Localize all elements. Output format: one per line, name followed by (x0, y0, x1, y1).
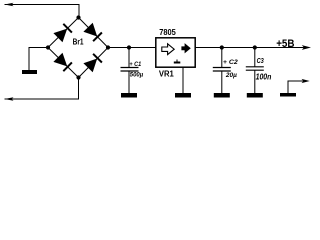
wire AC2: arrow to corner to bridge bottom node (5, 78, 79, 100)
wire AC1: arrow to corner to bridge top node (5, 5, 80, 18)
wire bridge edge L-T (48, 18, 79, 48)
ground (C2) (214, 93, 230, 98)
terminal arrow +5V output (302, 45, 311, 50)
wire bridge edge B-R (79, 48, 109, 78)
junction node top of bridge (76, 15, 80, 19)
svg-text:100n: 100n (256, 73, 272, 82)
wire C2 top lead (221, 48, 223, 68)
capacitor C2 (electrolytic) (213, 68, 231, 72)
diode Br1c (left node to bottom node) (53, 53, 72, 71)
wire left node to ground (29, 48, 48, 71)
wire C3 top lead (254, 48, 256, 67)
junction C2 tap (220, 45, 224, 49)
diode Br1a (left node to top node) (53, 24, 72, 43)
svg-text:VR1: VR1 (159, 70, 174, 79)
junction C3 tap (253, 45, 257, 49)
wire DC rail: bridge right node to regulator input (108, 47, 156, 49)
junction node left of bridge (46, 45, 50, 49)
bridge rectifier Br1 : edge wires (48, 18, 108, 78)
svg-text:C3: C3 (257, 58, 264, 65)
ground (0V output) (280, 93, 296, 97)
wire 0V output terminal (288, 81, 304, 93)
svg-text:Br1: Br1 (73, 36, 84, 46)
terminal arrow 0V output (302, 79, 310, 83)
junction node bottom of bridge (76, 75, 80, 79)
terminal arrow AC input 1 (top left) (5, 3, 14, 7)
regulator output filled arrow icon (181, 43, 190, 53)
wire C1 top lead (128, 48, 130, 68)
wire bridge edge T-R (79, 18, 109, 48)
svg-text:+ C1: + C1 (129, 61, 141, 68)
ground (C1) (121, 93, 137, 98)
regulator input open arrow icon (162, 44, 174, 55)
ground (bridge negative) (22, 70, 37, 74)
svg-text:7805: 7805 (159, 27, 176, 37)
svg-text:+5B: +5B (276, 38, 294, 50)
regulator VR1 box (156, 38, 195, 67)
wire C2 bottom lead (221, 71, 223, 93)
svg-text:20µ: 20µ (225, 72, 237, 79)
wire VR1 ground pin (182, 67, 184, 93)
wire C3 bottom lead (254, 70, 256, 93)
ground (VR1) (175, 93, 191, 98)
capacitor C3 (246, 67, 264, 70)
junction C1 tap (127, 45, 131, 49)
diode Br1b (top node to right node) (83, 23, 102, 42)
capacitor C1 (electrolytic) (121, 68, 139, 72)
junction node right of bridge (106, 45, 110, 49)
regulator internal ground mark (174, 60, 181, 63)
wire DC rail: regulator output to +5V arrow (195, 47, 305, 49)
wire C1 bottom lead (128, 71, 130, 93)
wire bridge edge L-B (48, 48, 79, 78)
diode Br1d (bottom node to right node) (83, 54, 102, 73)
terminal arrow AC input 2 (mid left) (5, 97, 14, 101)
svg-text:500µ: 500µ (130, 71, 144, 78)
ground (C3) (247, 93, 263, 98)
svg-text:+ C2: + C2 (223, 59, 238, 66)
